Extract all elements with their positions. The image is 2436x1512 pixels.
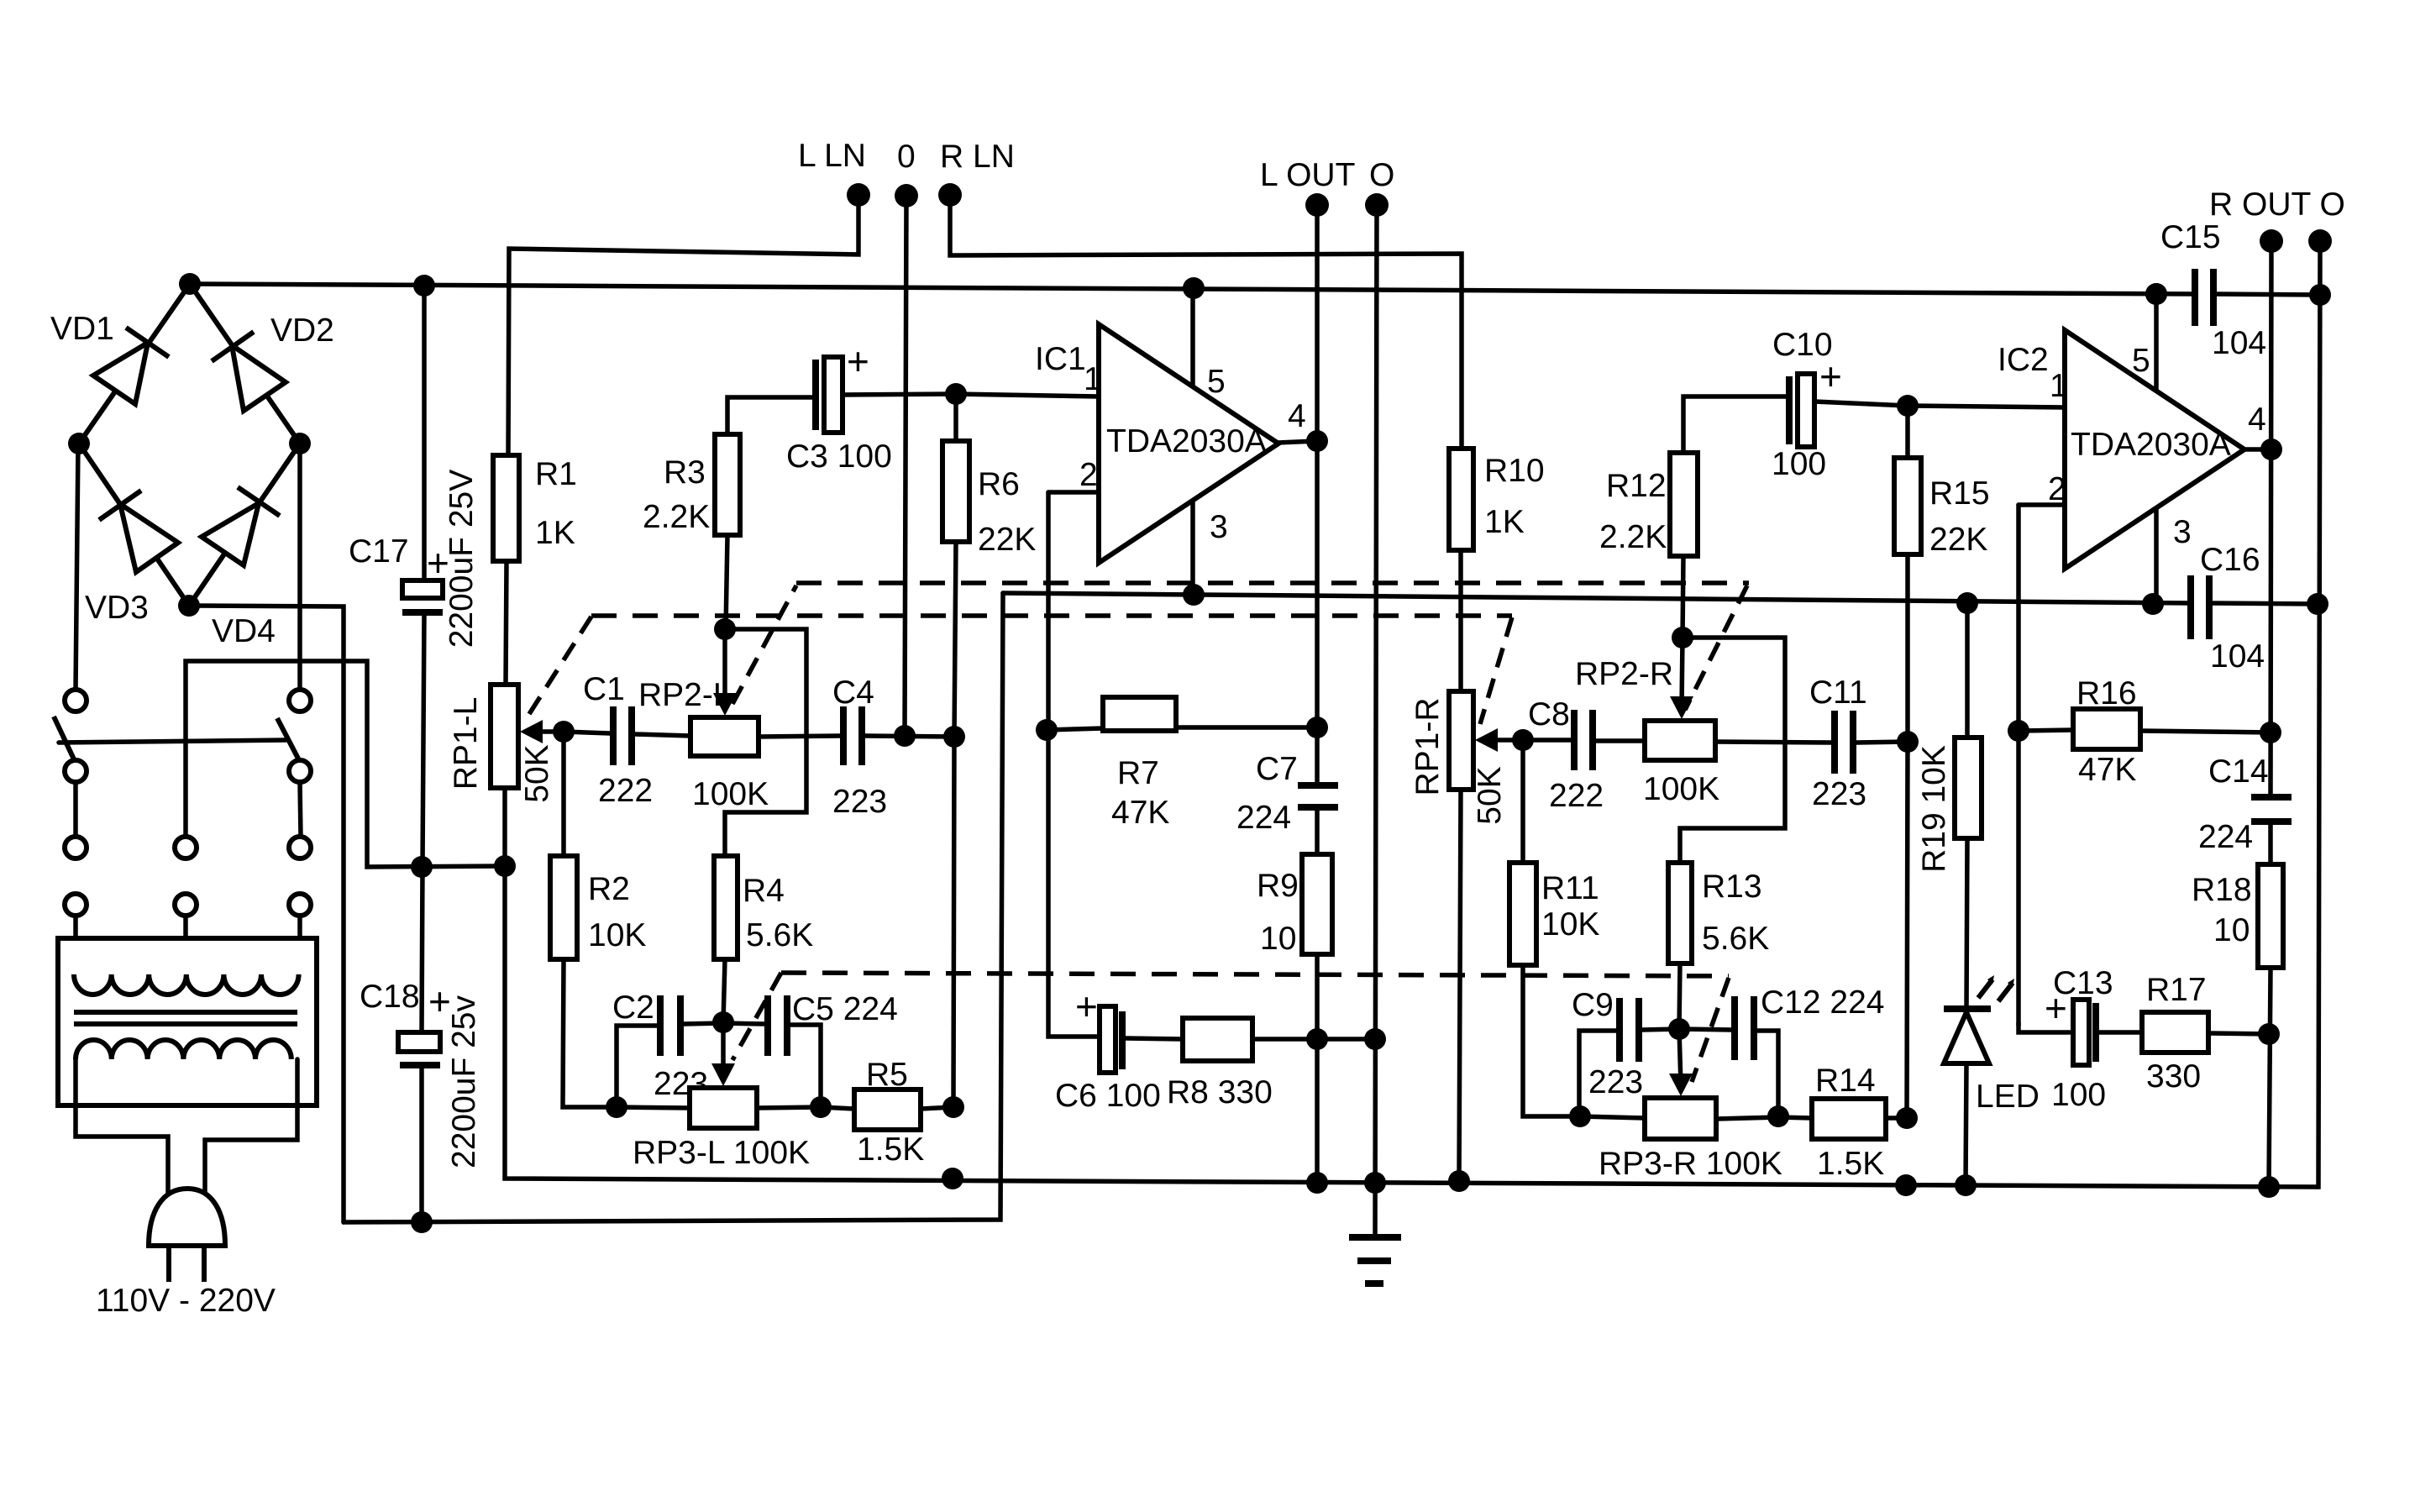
svg-text:C1: C1 xyxy=(583,671,625,707)
node: R7 left on pin2 column xyxy=(1036,719,1058,741)
node: 0 line joins tone wire xyxy=(894,725,916,747)
node: RP1-R wiper xyxy=(1512,729,1534,751)
resistor R4 (5.6K) xyxy=(714,856,738,1022)
svg-text:R15: R15 xyxy=(1929,475,1990,512)
resistor R19 (10K) xyxy=(1955,603,1982,1009)
svg-text:3: 3 xyxy=(2173,514,2192,550)
svg-text:IC2: IC2 xyxy=(1998,342,2049,378)
svg-text:R8 330: R8 330 xyxy=(1167,1074,1273,1110)
svg-text:C8: C8 xyxy=(1528,696,1570,732)
gang dash: RP1 horizontal link xyxy=(591,613,1512,618)
node: RP1-L bottom / ground-rail start xyxy=(494,855,516,877)
svg-text:C4: C4 xyxy=(832,675,874,711)
gang dash: RP3-L wiper diagonal xyxy=(732,973,781,1060)
node: R15 column on rail xyxy=(1895,1174,1917,1196)
svg-text:222: 222 xyxy=(598,773,653,809)
terminal 0 (input common) xyxy=(895,184,918,207)
svg-text:1.5K: 1.5K xyxy=(1817,1146,1884,1182)
node: R13/C9/C12/RP3-R wiper xyxy=(1668,1018,1690,1040)
svg-text:R13: R13 xyxy=(1702,869,1762,905)
wire: R LN input run to R10 xyxy=(950,195,1462,449)
svg-text:1K: 1K xyxy=(1484,504,1525,540)
wire: RP2-L wiper node jog to R4 xyxy=(725,629,806,856)
gang dash: RP2 horizontal link xyxy=(796,580,1749,585)
svg-text:224: 224 xyxy=(1236,800,1291,836)
capacitor C6 (100uF electrolytic) xyxy=(1100,1006,1183,1073)
wire: R OUT line (terminal down to C14) xyxy=(2271,241,2271,796)
svg-text:110V - 220V: 110V - 220V xyxy=(96,1283,276,1319)
switch contact circles row C xyxy=(65,837,87,858)
svg-text:0: 0 xyxy=(897,139,916,175)
node: C11/R15 junction xyxy=(1897,731,1919,753)
svg-text:2.2K: 2.2K xyxy=(643,499,710,535)
node: bridge left AC xyxy=(68,433,90,454)
capacitor C18 (2200uF 25v) xyxy=(398,867,440,1222)
capacitor C11 (223) xyxy=(1835,711,1908,774)
resistor R6 (22K) xyxy=(942,394,969,1107)
node: R8/R9 junction xyxy=(1306,1028,1328,1050)
wire: RP2-R wiper node jog to R13 xyxy=(1680,638,1785,863)
node: IC1 pin5 on +V rail xyxy=(1183,277,1205,299)
svg-text:C18: C18 xyxy=(360,979,420,1015)
capacitor C10 (100uF electrolytic) xyxy=(1789,374,1908,447)
svg-text:C2: C2 xyxy=(612,990,654,1026)
svg-text:VD3: VD3 xyxy=(85,590,149,626)
wire: -V rail (riser corner to C16 left plate) xyxy=(1003,593,2191,603)
op-amp IC1 TDA2030A xyxy=(1048,288,1317,595)
svg-text:50K: 50K xyxy=(519,744,555,802)
svg-text:C9: C9 xyxy=(1572,987,1614,1023)
svg-text:C12 224: C12 224 xyxy=(1761,984,1884,1021)
capacitor C4 (223) xyxy=(843,706,954,765)
potentiometer RP1-R (50K volume) xyxy=(1449,691,1523,1181)
node: R16 left on pin2 column xyxy=(2008,720,2029,742)
svg-text:RP1-R: RP1-R xyxy=(1410,697,1446,795)
svg-text:RP2-R: RP2-R xyxy=(1575,656,1673,692)
svg-text:5: 5 xyxy=(2132,343,2150,379)
svg-text:100K: 100K xyxy=(692,776,769,812)
svg-text:+: + xyxy=(847,339,869,383)
node: bridge top (+) xyxy=(179,273,201,295)
capacitor C2 (223) xyxy=(617,995,723,1107)
capacitor C7 (224) xyxy=(1298,785,1338,854)
wire: pin1 node to IC1 xyxy=(956,394,1099,396)
svg-text:223: 223 xyxy=(832,784,887,820)
svg-text:C6 100: C6 100 xyxy=(1055,1078,1161,1114)
node: O line on rail xyxy=(1364,1172,1386,1194)
svg-text:R12: R12 xyxy=(1606,468,1667,504)
resistor R18 (10) xyxy=(2258,864,2283,1187)
diode VD4 xyxy=(202,487,280,565)
capacitor C15 (104) xyxy=(2195,269,2213,326)
svg-text:2200uF 25v: 2200uF 25v xyxy=(446,995,482,1168)
capacitor C13 (100uF electrolytic) xyxy=(2073,1000,2142,1065)
svg-text:C5 224: C5 224 xyxy=(792,991,898,1027)
wire: O left line (terminal to ground symbol) xyxy=(1375,205,1377,1237)
svg-text:R6: R6 xyxy=(978,466,1020,502)
gang dash: RP1-L wiper diagonal xyxy=(529,617,591,714)
capacitor C12 (224) xyxy=(1679,996,1778,1116)
wire: bridge arm VD4 (bottom node to right node) xyxy=(189,444,300,606)
terminal O (left output common) xyxy=(1365,193,1389,217)
svg-text:R5: R5 xyxy=(866,1057,908,1093)
node: R3/RP2-L wiper xyxy=(714,618,736,640)
wire: bridge left node down to switch contact A-left xyxy=(76,444,78,690)
svg-text:100: 100 xyxy=(1772,446,1826,482)
svg-text:VD2: VD2 xyxy=(270,312,334,349)
node: R5 column on bottom rail xyxy=(942,1168,963,1189)
node: IC2 pin1 input node xyxy=(1897,395,1919,417)
resistor R1 (1K) xyxy=(493,455,519,685)
node: LED on rail xyxy=(1955,1174,1977,1196)
wire: bridge arm VD2 (right node to top node) xyxy=(190,284,300,444)
node: -V rail end at O-R line xyxy=(2307,593,2328,615)
svg-text:10: 10 xyxy=(2213,912,2250,948)
svg-text:100: 100 xyxy=(2051,1077,2106,1113)
gang dash: RP2-R wiper diagonal xyxy=(1685,585,1747,710)
resistor R10 (1K) xyxy=(1449,449,1473,691)
node: bridge right AC xyxy=(289,433,311,454)
svg-text:R17: R17 xyxy=(2146,972,2207,1008)
svg-text:O: O xyxy=(1369,157,1394,193)
wire: center-tap run (switch mid to C17/C18 midpoint to RP1-L bottom) xyxy=(186,661,505,867)
capacitor C5 (224) xyxy=(723,995,821,1107)
node: tone output to R6 xyxy=(943,726,965,748)
svg-text:5.6K: 5.6K xyxy=(1702,921,1769,957)
resistor R7 (47K feedback) xyxy=(1047,697,1317,731)
svg-text:IC1: IC1 xyxy=(1035,341,1086,377)
svg-text:22K: 22K xyxy=(1929,522,1987,558)
wire: transformer primary left lead to plug xyxy=(76,1059,168,1194)
svg-text:5: 5 xyxy=(1207,364,1226,400)
svg-text:22K: 22K xyxy=(978,522,1036,558)
svg-text:C16: C16 xyxy=(2200,542,2260,578)
svg-text:104: 104 xyxy=(2212,325,2266,361)
svg-text:C7: C7 xyxy=(1256,751,1298,787)
node: R12/RP2-R wiper xyxy=(1672,627,1693,648)
resistor R12 (2.2K) xyxy=(1670,396,1787,638)
svg-text:R10: R10 xyxy=(1484,453,1545,489)
svg-text:1: 1 xyxy=(2050,368,2068,404)
svg-text:+: + xyxy=(1819,354,1842,398)
node: RP3-L right xyxy=(810,1096,832,1118)
resistor R2 (10K) xyxy=(550,732,617,1107)
svg-text:RP3-L 100K: RP3-L 100K xyxy=(633,1135,810,1171)
svg-text:2: 2 xyxy=(1079,457,1098,493)
svg-text:R LN: R LN xyxy=(940,139,1015,175)
svg-text:TDA2030A: TDA2030A xyxy=(1106,423,1267,459)
node: C18 negative on -V run xyxy=(411,1211,433,1233)
resistor R11 (10K) xyxy=(1509,740,1580,1116)
svg-text:104: 104 xyxy=(2210,638,2265,675)
resistor R9 (10) xyxy=(1302,854,1332,1183)
node: R17/R18 junction xyxy=(2258,1023,2280,1045)
node: R9 bottom on rail xyxy=(1306,1172,1328,1194)
wire: L OUT line (terminal to bottom rail through C7/R9) xyxy=(1315,205,1320,785)
switch contact circles row B xyxy=(65,760,87,782)
svg-text:10: 10 xyxy=(1260,921,1296,957)
potentiometer RP2-R (100K treble) xyxy=(1645,638,1715,760)
svg-text:R2: R2 xyxy=(588,871,630,907)
svg-text:LED: LED xyxy=(1976,1079,2040,1115)
resistor R16 (47K feedback) xyxy=(2019,709,2271,749)
node: RP3-R right xyxy=(1767,1105,1789,1127)
LED power indicator xyxy=(1944,975,2014,1185)
node: RP1-L wiper xyxy=(553,721,575,743)
op-amp IC2 TDA2030A xyxy=(2019,294,2271,604)
plug prong left xyxy=(166,1246,171,1282)
svg-text:+: + xyxy=(2045,986,2067,1030)
svg-text:RP1-L: RP1-L xyxy=(448,697,484,790)
diode VD3 xyxy=(99,491,178,572)
svg-text:R16: R16 xyxy=(2076,675,2137,711)
node: IC1 pin4 output on L OUT line xyxy=(1306,430,1328,452)
wire: switch D-mid to transformer xyxy=(183,916,188,973)
svg-text:R7: R7 xyxy=(1117,755,1159,791)
svg-text:100K: 100K xyxy=(1643,771,1719,807)
wire: switch B-left to C-left xyxy=(73,782,78,837)
node: R14/R15 junction xyxy=(1896,1107,1918,1129)
wire: 0 line down to tone node xyxy=(905,196,906,736)
diode VD2 xyxy=(212,332,286,411)
svg-text:10K: 10K xyxy=(1541,906,1599,942)
svg-text:3: 3 xyxy=(1210,509,1228,545)
wire: bridge right node down to switch contact A-right xyxy=(297,444,302,690)
node: RP3-L left xyxy=(606,1096,627,1118)
terminal O right xyxy=(2308,229,2332,253)
wire: switch B-right to C-right xyxy=(300,782,301,837)
node: R7 right on L OUT line xyxy=(1306,717,1328,738)
node: +V rail end at O-R line xyxy=(2309,284,2331,306)
potentiometer RP3-L (100K bass) xyxy=(617,1022,821,1128)
svg-text:50K: 50K xyxy=(1472,766,1508,824)
svg-text:223: 223 xyxy=(1588,1064,1643,1100)
svg-text:224: 224 xyxy=(2198,819,2253,855)
switch lever left pole xyxy=(54,717,75,761)
node: R18 column on rail xyxy=(2258,1176,2280,1198)
node: RP1-R bottom on rail xyxy=(1448,1170,1470,1192)
svg-text:VD4: VD4 xyxy=(212,613,276,649)
wire: bridge bottom to -V riser xyxy=(189,606,344,1222)
svg-text:222: 222 xyxy=(1549,778,1604,814)
node: RP3-R left xyxy=(1569,1105,1591,1127)
node: IC1 pin3 on -V rail xyxy=(1183,584,1205,606)
node: IC1 pin1 input node xyxy=(945,383,967,405)
capacitor C14 (224) xyxy=(2251,797,2292,864)
svg-text:R1: R1 xyxy=(535,456,577,492)
node: IC2 pin4 output on R OUT line xyxy=(2260,438,2282,460)
resistor R17 (330) xyxy=(2142,1012,2269,1053)
resistor R5 (1.5K) xyxy=(821,1089,953,1130)
wire: pin1 node to IC2 xyxy=(1908,406,2065,407)
svg-text:+: + xyxy=(1075,984,1098,1028)
svg-text:TDA2030A: TDA2030A xyxy=(2071,427,2231,463)
potentiometer RP1-L (50K volume) xyxy=(491,685,564,866)
wire: O right line (terminal down to bottom rail corner) xyxy=(2317,241,2320,1187)
resistor R13 (5.6K) xyxy=(1668,863,1692,1029)
svg-text:4: 4 xyxy=(1288,398,1306,434)
wire: -V bottom run from riser to C18 negative and up-riser xyxy=(344,593,1003,1222)
node: R4/C2/C5/RP3-L wiper xyxy=(712,1011,734,1033)
node: C17/C18 midpoint xyxy=(411,856,433,878)
svg-text:C14: C14 xyxy=(2208,753,2269,790)
wire: ground bottom rail xyxy=(505,866,2317,1187)
svg-text:R OUT O: R OUT O xyxy=(2209,186,2345,223)
node: IC2 pin5 on +V rail xyxy=(2145,283,2167,305)
svg-text:VD1: VD1 xyxy=(50,311,114,347)
potentiometer RP2-L (100K treble) xyxy=(690,629,759,756)
svg-text:R11: R11 xyxy=(1541,870,1599,906)
svg-text:10K: 10K xyxy=(588,917,646,953)
wire: +V rail after C15 to O-R line xyxy=(2213,294,2320,295)
wire: switch D-left to transformer xyxy=(73,916,78,973)
svg-text:1: 1 xyxy=(1084,361,1102,397)
wire: L LN input run to R1 xyxy=(508,195,858,455)
capacitor C16 (104) xyxy=(2191,575,2209,639)
node: IC2 pin3 on -V rail xyxy=(2142,593,2164,615)
capacitor C8 (222) xyxy=(1523,710,1645,770)
svg-text:L OUT: L OUT xyxy=(1260,157,1355,193)
svg-text:47K: 47K xyxy=(2078,752,2136,788)
node: rail to C17 xyxy=(413,275,435,297)
capacitor C1 (222) xyxy=(564,706,690,765)
svg-text:330: 330 xyxy=(2146,1058,2201,1095)
wire: -V rail after C16 to O-R line xyxy=(2209,603,2318,604)
svg-text:L LN: L LN xyxy=(798,138,866,174)
wire: RP2-R right to C11 xyxy=(1715,742,1831,743)
svg-text:223: 223 xyxy=(1812,776,1866,812)
switch lever right pole xyxy=(277,718,299,760)
wire: IC1 pin2 feedback column to C6 xyxy=(1048,492,1100,1037)
wire: RP2-L right to C4 xyxy=(759,736,840,737)
svg-text:C15: C15 xyxy=(2160,219,2221,255)
wire: pin2 column corner to C13 xyxy=(2019,1023,2070,1032)
node: R5/R6 to bottom rail column xyxy=(942,1096,964,1118)
svg-text:2.2K: 2.2K xyxy=(1599,519,1667,555)
svg-text:5.6K: 5.6K xyxy=(746,917,813,953)
svg-text:R14: R14 xyxy=(1815,1063,1876,1099)
wire: +V top rail (bridge top to C15 left plate) xyxy=(190,284,2195,294)
svg-text:R19 10K: R19 10K xyxy=(1916,745,1952,873)
resistor R3 (2.2K) xyxy=(715,397,813,629)
resistor R14 (1.5K) xyxy=(1778,1099,1907,1139)
svg-text:C17: C17 xyxy=(349,533,409,570)
svg-text:C11: C11 xyxy=(1809,675,1867,711)
gang dash: RP3-R wiper diagonal xyxy=(1692,978,1729,1082)
wire: bridge arm VD1 (left node to top node) xyxy=(79,284,190,444)
resistor R15 (22K) xyxy=(1894,406,1921,1118)
node: bridge bottom (-) xyxy=(178,595,200,617)
plug prong right xyxy=(202,1246,207,1282)
mains plug body xyxy=(149,1189,225,1246)
svg-text:C3 100: C3 100 xyxy=(786,438,892,475)
svg-text:RP2-L: RP2-L xyxy=(638,677,732,713)
svg-text:R9: R9 xyxy=(1257,868,1299,904)
svg-text:1K: 1K xyxy=(535,515,575,551)
svg-text:47K: 47K xyxy=(1111,795,1169,831)
svg-text:2200uF 25V: 2200uF 25V xyxy=(444,470,480,648)
wire: switch D-right to transformer xyxy=(297,916,302,973)
capacitor C17 (2200uF 25V) xyxy=(402,286,443,867)
terminal L OUT xyxy=(1305,193,1329,217)
resistor R8 (330) xyxy=(1183,1018,1375,1061)
terminal L LN xyxy=(847,183,870,207)
capacitor C9 (223) xyxy=(1579,998,1679,1116)
svg-text:2: 2 xyxy=(2048,471,2066,507)
svg-text:1.5K: 1.5K xyxy=(857,1131,924,1168)
wire: transformer primary right lead to plug xyxy=(205,1059,297,1194)
wire: IC2 pin2 feedback column to C13 xyxy=(2016,505,2021,1025)
wire: bridge arm VD3 (bottom node to left node) xyxy=(79,444,189,606)
transformer T1 xyxy=(58,938,317,1105)
ground symbol xyxy=(1349,1237,1401,1284)
terminal R OUT xyxy=(2260,229,2283,253)
gang dash: RP3 horizontal link xyxy=(781,973,1729,976)
svg-text:R4: R4 xyxy=(743,873,785,909)
terminal R LN xyxy=(938,183,962,207)
capacitor C3 (100uF electrolytic) xyxy=(816,357,956,433)
switch contact circles row A xyxy=(65,690,87,711)
svg-text:4: 4 xyxy=(2248,402,2266,438)
svg-text:R3: R3 xyxy=(664,454,706,491)
potentiometer RP3-R (100K bass) xyxy=(1580,1029,1778,1139)
switch contact circles row D xyxy=(65,894,87,916)
node: R16 right on R OUT line xyxy=(2260,722,2281,743)
diode VD1 xyxy=(93,328,169,404)
switch gang tie bar xyxy=(59,740,286,743)
svg-text:RP3-R 100K: RP3-R 100K xyxy=(1599,1146,1782,1182)
gang dash: RP2-L wiper diagonal xyxy=(732,585,796,704)
gang dash: RP1-R wiper diagonal xyxy=(1480,617,1512,724)
node: +V rail at C15 xyxy=(2145,283,2167,305)
node: R8 to O line xyxy=(1364,1028,1386,1050)
svg-text:R18: R18 xyxy=(2192,872,2252,908)
node: R19 on -V rail xyxy=(1956,592,1978,614)
